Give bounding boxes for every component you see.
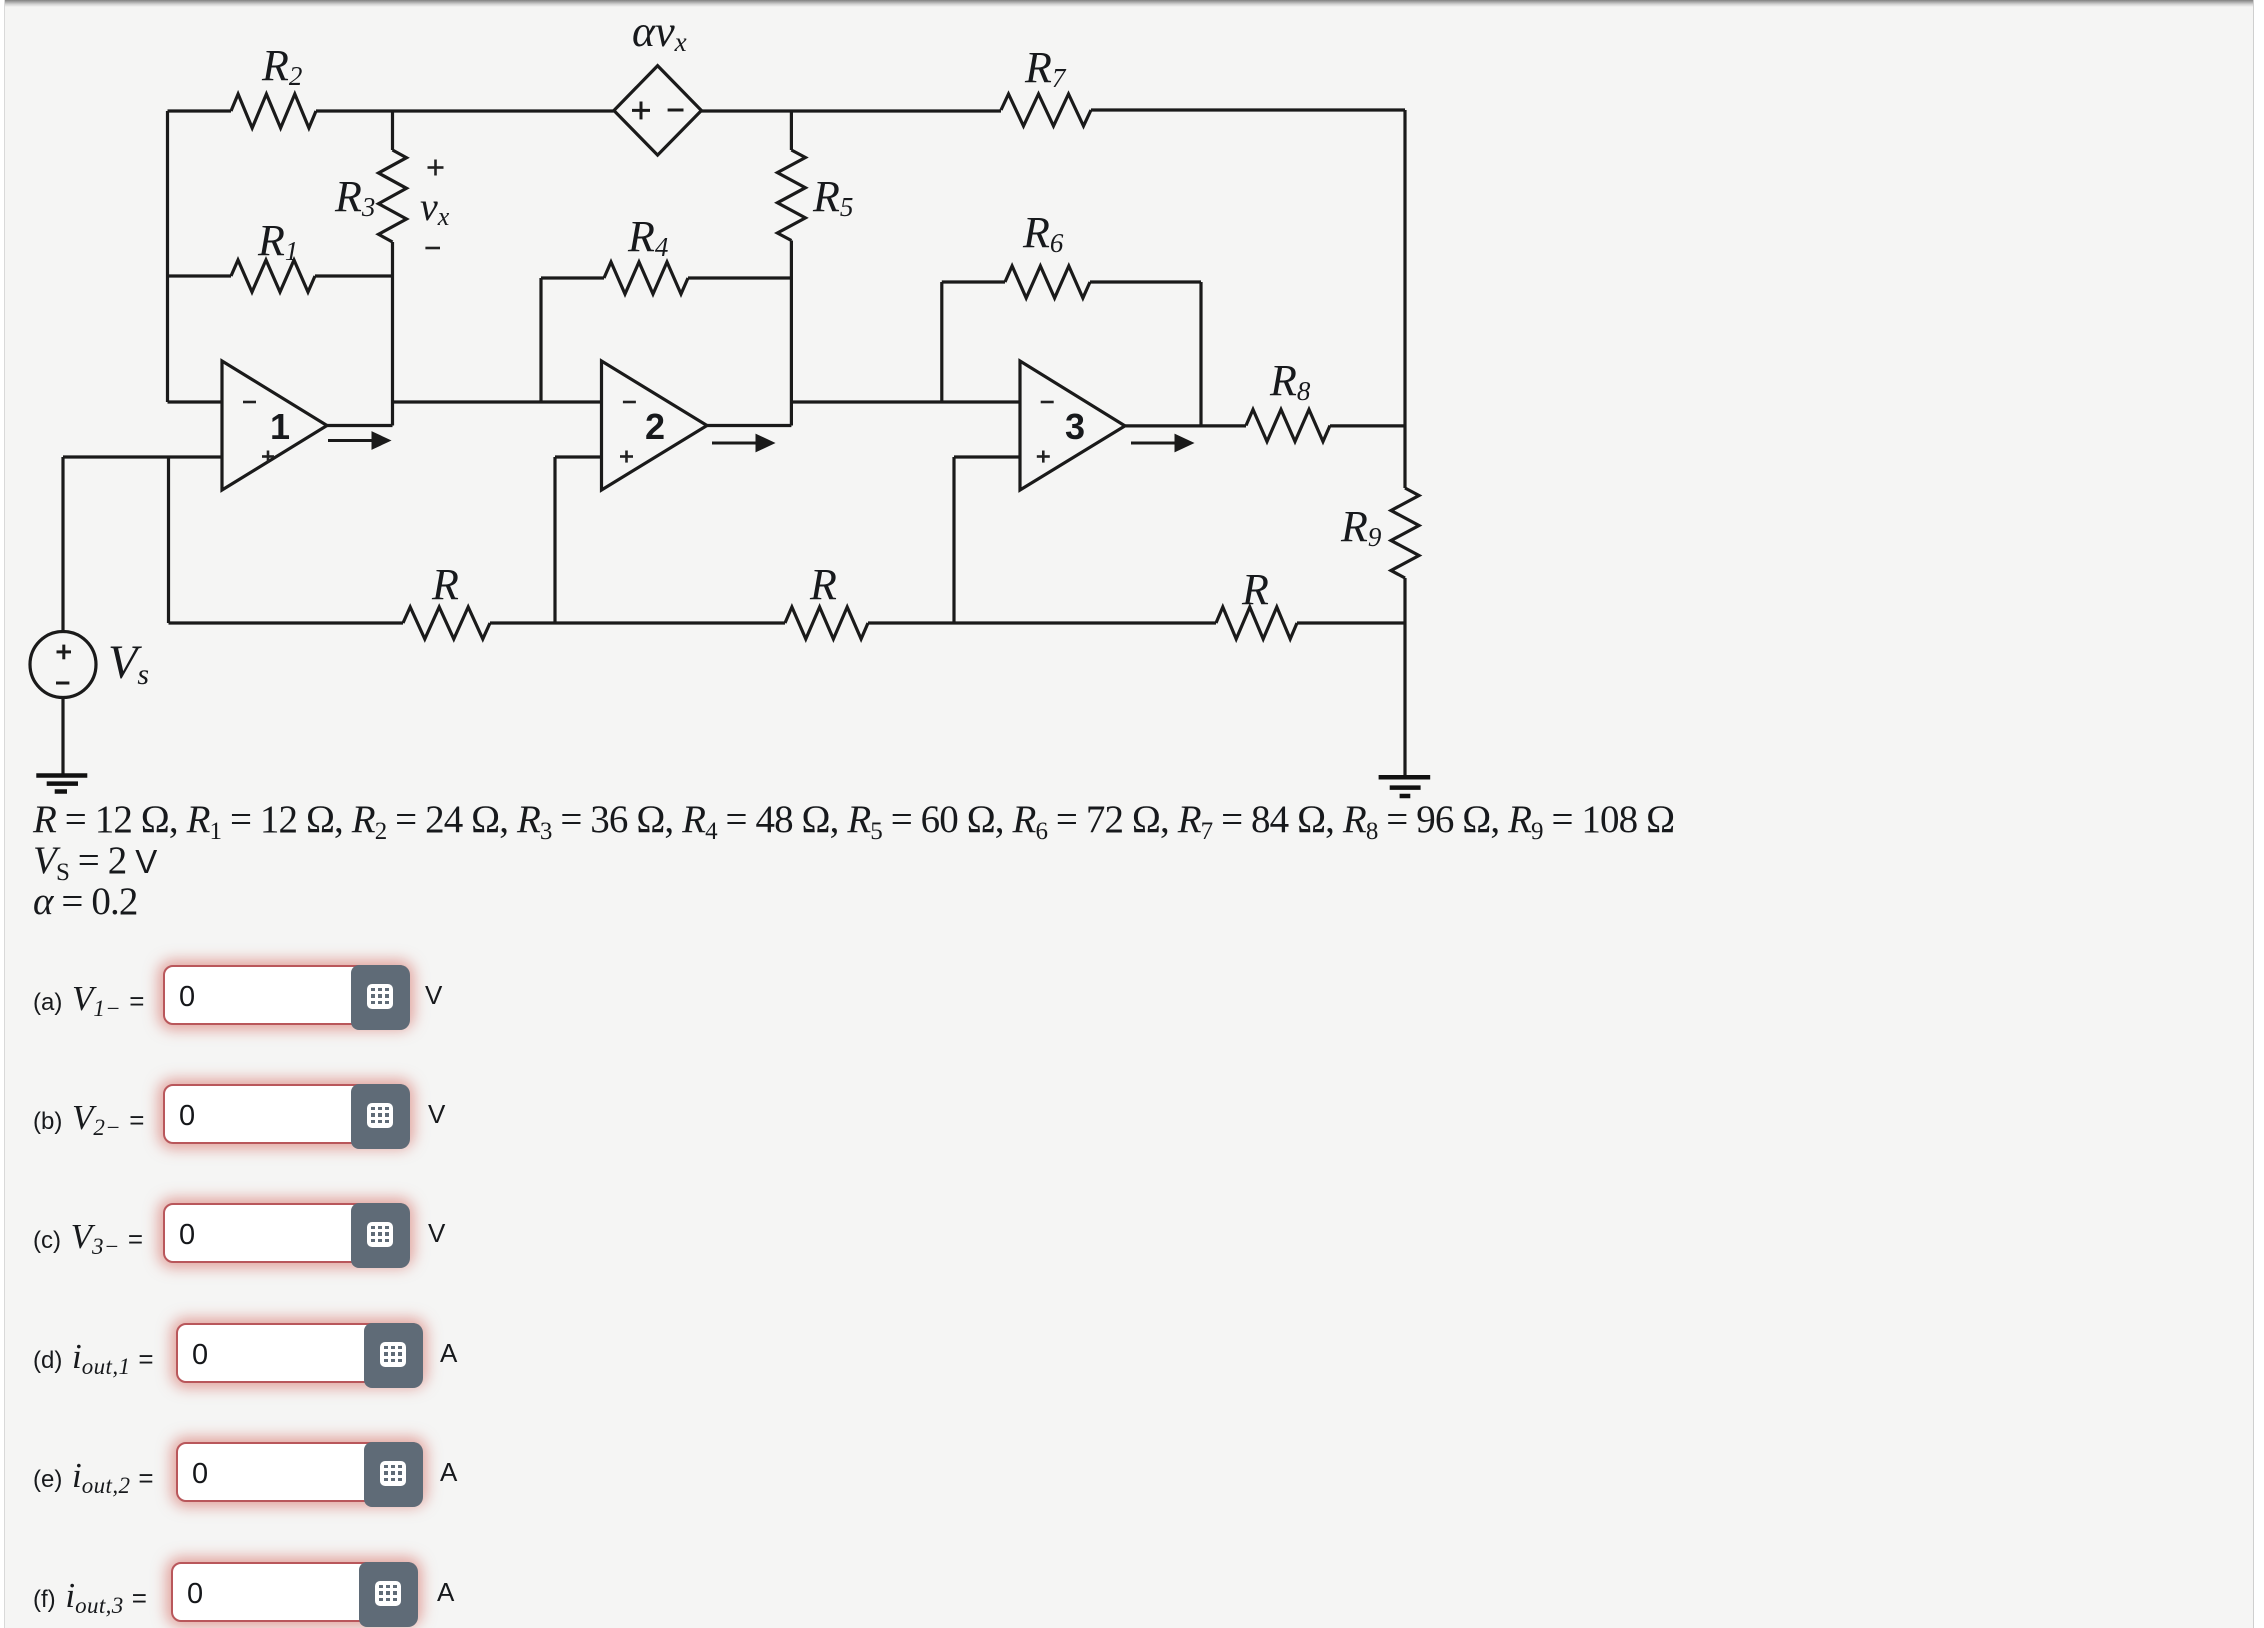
resistor R5 <box>777 150 805 241</box>
resistor R4 <box>604 262 688 294</box>
svg-text:R4: R4 <box>627 212 668 262</box>
wire top rail to right corner <box>1091 108 1405 111</box>
answer row f <box>0 1562 1 1622</box>
minus sign in diamond <box>668 109 684 112</box>
wire left vertical <box>166 111 169 402</box>
wire right vertical upper <box>1403 110 1406 488</box>
wire R4 left lead <box>541 276 604 279</box>
svg-text:R6: R6 <box>1022 208 1064 258</box>
wire R1 right <box>315 274 393 277</box>
resistor R7 <box>1001 94 1091 126</box>
svg-text:R1: R1 <box>257 216 298 266</box>
wire bottom rail seg2 <box>490 621 785 624</box>
wire R6 left drop <box>940 282 943 402</box>
arrow iout3 <box>1131 436 1191 450</box>
wire plus rail drop <box>167 457 170 623</box>
wire bottom rail seg1 <box>169 621 404 624</box>
wire top rail mid <box>316 109 614 112</box>
wire op3 plus input <box>954 455 1020 458</box>
wire op3 plus drop <box>952 457 955 623</box>
resistor R bottom3 <box>1216 607 1297 639</box>
wire op3 output <box>1125 424 1246 427</box>
wire R6 right lead <box>1090 280 1201 283</box>
voltage source Vs <box>30 632 96 698</box>
plus sign op2 <box>620 451 633 463</box>
wire R4 right lead <box>688 276 791 279</box>
wire op1 output <box>327 424 393 427</box>
wire op1 minus input <box>168 400 223 403</box>
resistor R2 <box>231 94 316 128</box>
plus sign vx <box>428 160 444 176</box>
wire Vs bottom <box>61 698 64 776</box>
wire node x392 upper <box>391 111 394 150</box>
circuit schematic <box>0 0 1450 810</box>
ground left <box>36 776 87 792</box>
wire op2 plus input <box>555 455 602 458</box>
answer row b <box>0 1084 1 1144</box>
svg-text:1: 1 <box>270 406 290 447</box>
svg-text:αvx: αvx <box>632 7 687 57</box>
answer row e <box>0 1442 1 1502</box>
svg-text:2: 2 <box>645 406 665 447</box>
minus sign op2 <box>623 401 636 404</box>
resistor R9 <box>1391 488 1419 578</box>
wire op2 out to op3 minus <box>791 400 1020 403</box>
parameter text <box>32 0 34 1</box>
answer row d <box>0 1323 1 1383</box>
minus sign op1 <box>243 401 256 404</box>
svg-text:R5: R5 <box>812 172 853 222</box>
wire op2 plus drop <box>553 457 556 623</box>
wire bottom rail seg3 <box>868 621 1216 624</box>
wire node x791 upper <box>790 111 793 150</box>
svg-text:Vs: Vs <box>108 636 149 691</box>
arrow iout2 <box>712 436 772 450</box>
wire R4 left drop <box>539 278 542 402</box>
line R values <box>33 797 1674 842</box>
wire top rail right of source <box>701 109 1001 112</box>
resistor R1 <box>231 260 315 292</box>
op-amp U1 <box>222 361 327 490</box>
wire Vs top <box>61 457 64 632</box>
arrow iout1 <box>328 434 388 448</box>
svg-text:R: R <box>431 560 459 609</box>
svg-text:vx: vx <box>420 184 450 231</box>
wire op1 plus input <box>63 455 222 458</box>
svg-text:R9: R9 <box>1340 502 1382 552</box>
wire R6 right vertical <box>1199 282 1202 426</box>
wire right vertical lower <box>1403 578 1406 775</box>
wire node x392 lower <box>391 242 394 426</box>
line Vs value <box>33 838 156 883</box>
plus sign op1 <box>262 451 274 463</box>
ground right <box>1379 777 1431 796</box>
dependent source avx diamond <box>614 66 702 155</box>
answer row a <box>0 965 1 1025</box>
minus sign vx <box>425 247 440 250</box>
wire op1 out to op2 minus <box>393 400 602 403</box>
svg-text:R: R <box>1241 565 1269 614</box>
wire R1 left <box>168 274 232 277</box>
resistor R8 <box>1246 410 1330 442</box>
svg-text:R: R <box>809 560 837 609</box>
wire R6 left lead <box>942 280 1005 283</box>
minus sign Vs <box>56 682 69 685</box>
svg-text:3: 3 <box>1065 406 1085 447</box>
wire R8 right lead <box>1330 424 1405 427</box>
minus sign op3 <box>1041 401 1054 404</box>
svg-text:R8: R8 <box>1269 356 1311 406</box>
op-amp U3 <box>1020 361 1125 490</box>
resistor R bottom1 <box>403 607 490 639</box>
svg-text:R3: R3 <box>334 172 375 222</box>
svg-text:R7: R7 <box>1024 43 1067 93</box>
plus sign in diamond <box>632 102 650 120</box>
resistor R6 <box>1005 266 1090 298</box>
wire bottom rail seg4 <box>1297 621 1405 624</box>
op-amp U2 <box>602 361 708 490</box>
wire op2 output <box>707 424 791 427</box>
resistor R3 <box>379 150 407 242</box>
svg-text:R2: R2 <box>261 41 302 91</box>
wire node x791 lower <box>790 241 793 426</box>
resistor R bottom2 <box>785 607 868 639</box>
plus sign Vs <box>57 645 72 660</box>
line alpha value <box>33 879 137 924</box>
plus sign op3 <box>1037 451 1050 463</box>
answer row c <box>0 1203 1 1263</box>
wire top rail left <box>168 109 232 112</box>
